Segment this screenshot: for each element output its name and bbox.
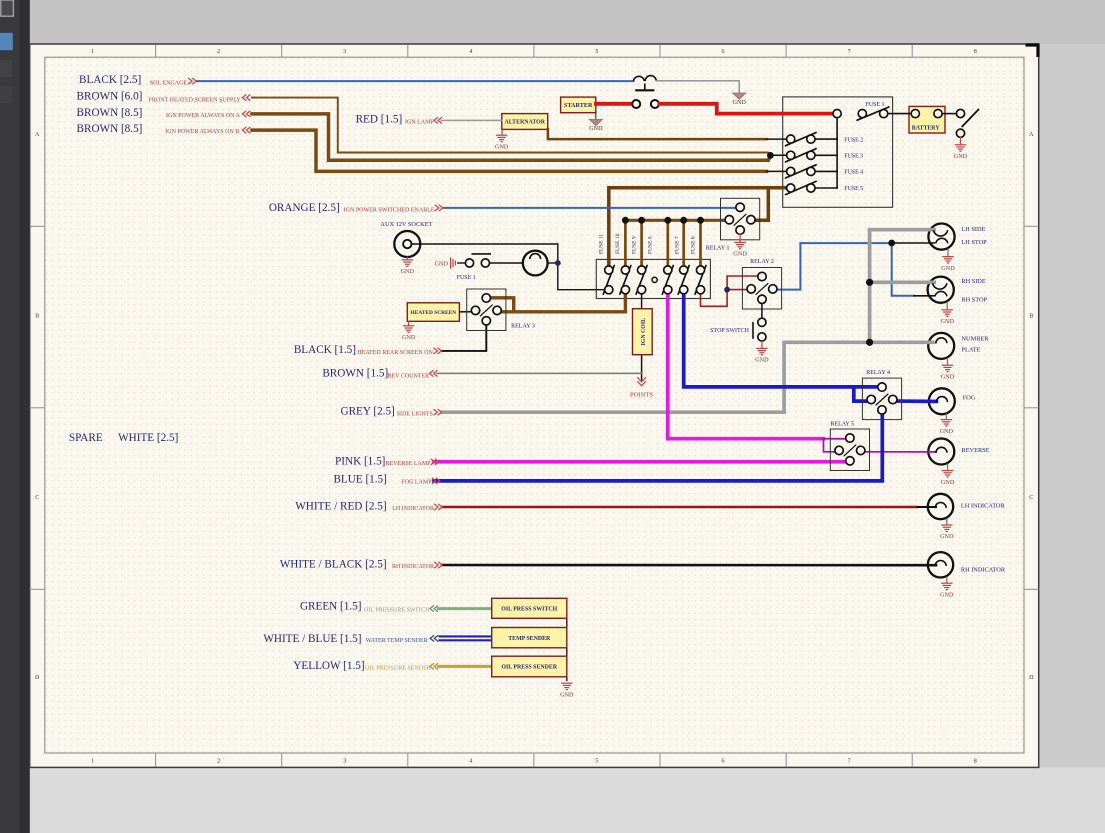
svg-text:OIL PRESSURE SWITCH: OIL PRESSURE SWITCH	[364, 608, 430, 614]
wire sensor commons to GND (dark)	[566, 609, 568, 681]
connector fuse FUSE 8	[647, 236, 673, 294]
svg-text:GND: GND	[589, 125, 603, 132]
node junction grey at RH SIDE	[866, 279, 873, 286]
svg-text:4: 4	[469, 49, 472, 55]
wire relay5 coil/common branch (dark magenta)	[824, 438, 846, 440]
wire switched bus to connector tops (brown)	[625, 219, 724, 222]
wire grey to LH SIDE	[870, 228, 934, 232]
svg-text:GREEN [1.5]: GREEN [1.5]	[300, 601, 362, 613]
svg-text:RED [1.5]: RED [1.5]	[356, 114, 403, 126]
svg-text:FUSE 4: FUSE 4	[844, 170, 863, 176]
svg-text:GND: GND	[560, 691, 574, 698]
pin stub LH INDICATOR	[918, 506, 937, 508]
wire AUX socket net (black thin)	[412, 244, 605, 290]
wire YELLOW to OIL PRESS SENDER (gold)	[439, 665, 492, 668]
svg-text:OIL PRESS SWITCH: OIL PRESS SWITCH	[501, 606, 557, 612]
node junction relay2 feed	[724, 287, 730, 293]
connector spare pin circle	[652, 277, 657, 282]
svg-text:3: 3	[343, 49, 346, 55]
svg-text:GND: GND	[940, 318, 954, 325]
svg-text:GND: GND	[402, 334, 416, 341]
svg-text:REVERSE: REVERSE	[962, 447, 990, 454]
relay RELAY 3	[467, 289, 535, 331]
svg-text:STARTER: STARTER	[564, 102, 593, 109]
svg-text:7: 7	[848, 49, 851, 55]
component STARTER	[561, 97, 596, 113]
pin stub FUSE 2	[767, 138, 787, 140]
component cigar lighter	[523, 251, 548, 276]
svg-text:5: 5	[595, 759, 598, 765]
connector fuse FUSE 11	[599, 234, 615, 295]
svg-text:BROWN [1.5]: BROWN [1.5]	[322, 367, 388, 379]
wire IGN LAMP to ALTERNATOR (grey)	[442, 119, 502, 121]
wire FUSE10 to RELAY 3 (thick brown)	[500, 294, 626, 312]
svg-text:IGN POWER ALWAYS ON A: IGN POWER ALWAYS ON A	[166, 113, 241, 119]
fuse FUSE 1 (main)	[833, 110, 841, 118]
ground GND (alternator)	[501, 129, 503, 134]
svg-text:RH INDICATOR: RH INDICATOR	[392, 564, 434, 570]
lamp filaments LH	[933, 230, 947, 236]
svg-text:FUSE 6: FUSE 6	[690, 236, 696, 254]
connector fuse FUSE 7	[674, 236, 689, 294]
ground GND (fog lamp)	[945, 413, 947, 419]
switch STOP SWITCH	[761, 304, 763, 318]
wire HEATED REAR SCREEN ON (black)	[442, 326, 486, 351]
svg-text:WHITE / BLUE [1.5]: WHITE / BLUE [1.5]	[263, 633, 361, 645]
wire FUSE6 to RELAY 2 (dark red)	[701, 276, 758, 306]
svg-text:POINTS: POINTS	[630, 392, 653, 399]
svg-text:BATTERY: BATTERY	[912, 125, 941, 131]
svg-text:REVERSE LAMP: REVERSE LAMP	[386, 461, 432, 467]
svg-text:GREY [2.5]: GREY [2.5]	[341, 406, 395, 418]
pin stub LH STOP	[892, 242, 935, 244]
wire GREEN to OIL PRESS SWITCH (green)	[439, 607, 492, 610]
svg-text:B: B	[1029, 313, 1033, 319]
svg-text:GND: GND	[732, 99, 746, 106]
component ALTERNATOR	[502, 114, 548, 130]
svg-text:FUSE 2: FUSE 2	[844, 137, 863, 143]
schematic sheet	[30, 44, 1039, 767]
relay RELAY 2	[742, 259, 781, 309]
svg-text:GND: GND	[941, 265, 955, 272]
ground GND (solenoid, triangle)	[733, 93, 746, 99]
lamp RH SIDE/STOP	[928, 277, 954, 303]
wire lighter to junction (black thin)	[548, 262, 558, 264]
ground GND (stop switch)	[761, 341, 763, 348]
wire solenoid contact to fuse box (red)	[659, 104, 833, 114]
svg-text:FUSE 9: FUSE 9	[631, 236, 637, 254]
lamp REVERSE	[928, 439, 954, 465]
fuse FUSE 2	[815, 138, 837, 140]
svg-text:FUSE 1: FUSE 1	[866, 102, 885, 108]
svg-text:RH INDICATOR: RH INDICATOR	[961, 566, 1006, 573]
svg-text:8: 8	[974, 759, 977, 765]
svg-text:TEMP SENDER: TEMP SENDER	[508, 636, 551, 642]
fuse FUSE 1 (aux, bar style)	[472, 253, 490, 255]
lamp filament FOG	[936, 397, 947, 403]
svg-text:RELAY 4: RELAY 4	[866, 370, 890, 376]
ground GND (starter, triangle)	[595, 113, 597, 119]
svg-text:IGN COIL: IGN COIL	[641, 318, 647, 346]
relay RELAY 5	[830, 422, 869, 471]
wire STARTER to solenoid contact (red)	[596, 102, 632, 106]
svg-text:WHITE / RED [2.5]: WHITE / RED [2.5]	[295, 500, 386, 512]
wire RELAY 5 to REVERSE lamp (dark magenta)	[865, 451, 936, 453]
fuse box FUSE1-FUSE5	[783, 97, 893, 207]
svg-text:RELAY 1: RELAY 1	[706, 246, 730, 252]
svg-text:GND: GND	[954, 153, 968, 160]
svg-text:IGN LAMP: IGN LAMP	[405, 120, 434, 126]
svg-text:GND: GND	[940, 428, 954, 435]
ground GND (number plate lamp)	[947, 358, 949, 365]
wire RELAY 2 to stop lamps (blue)	[777, 243, 888, 290]
lamp filament REVERSE	[936, 447, 947, 453]
svg-text:FOG LAMP: FOG LAMP	[401, 480, 432, 486]
wire fuse bus vertical (black)	[836, 118, 838, 188]
svg-text:A: A	[35, 132, 40, 138]
wire SOL ENGAGE (blue)	[197, 80, 634, 82]
component OIL PRESS SENDER	[492, 656, 567, 677]
wire stop lamp branch down (blue)	[892, 243, 914, 296]
svg-text:FUSE 8: FUSE 8	[647, 236, 653, 254]
component IGN COIL	[633, 309, 653, 355]
ground GND (battery switch)	[960, 137, 962, 144]
wire SIDE LIGHTS grey trunk	[442, 342, 933, 412]
wire REV COUNTER (grey)	[437, 372, 642, 374]
wire ignition switched thick brown trunk to FUSE 5 / FUSE 11 / RELAY 1	[609, 188, 787, 266]
node bus junction at x=625.4	[622, 217, 629, 224]
fuse FUSE 4	[815, 170, 837, 172]
node junction aux net	[555, 260, 561, 266]
wire FOG LAMP label to relay4 coil (thick blue)	[434, 414, 882, 481]
switch battery master	[956, 109, 964, 117]
svg-text:D: D	[35, 675, 40, 681]
relay RELAY 4	[862, 370, 901, 420]
wire FUSE8 to RELAY 4 (thick blue)	[684, 294, 879, 387]
svg-text:GND: GND	[940, 533, 954, 540]
wire IGN POWER SWITCHED ENABLE (blue)	[443, 207, 736, 209]
svg-text:BLUE [1.5]: BLUE [1.5]	[333, 474, 386, 486]
svg-text:ORANGE [2.5]: ORANGE [2.5]	[269, 202, 340, 214]
ground GND (senders)	[561, 683, 572, 689]
fuse FUSE 3	[815, 154, 837, 156]
ground GND (aux socket)	[406, 257, 408, 259]
svg-text:YELLOW [1.5]: YELLOW [1.5]	[293, 660, 364, 672]
component OIL PRESS SWITCH	[492, 598, 567, 618]
connector block FUSE6-FUSE11	[596, 259, 710, 298]
pin stub RH STOP	[914, 295, 934, 297]
node bus junction at x=641.6	[638, 217, 645, 224]
wire small FUSE 1 to lighter (black thin)	[490, 262, 523, 264]
starter solenoid coil K1	[633, 76, 656, 91]
sheet border ticks and zone labels	[30, 45, 1039, 768]
connector fuse FUSE 6	[690, 236, 706, 294]
svg-text:C: C	[35, 495, 39, 501]
svg-text:7: 7	[848, 759, 851, 765]
svg-text:6: 6	[722, 49, 725, 55]
lamp LH INDICATOR	[928, 494, 953, 519]
svg-text:REV COUNTER: REV COUNTER	[387, 373, 429, 379]
ground GND (RH lamp)	[946, 302, 948, 310]
wire FRONT HEATED SCREEN SUPPLY BROWN 6.0 (brown)	[252, 98, 771, 156]
lamp filament RH INDICATOR	[935, 560, 946, 566]
component AUX 12V SOCKET	[394, 231, 420, 257]
node bus junction at x=700.5	[697, 217, 704, 224]
label NUMBER PLATE	[962, 336, 990, 354]
ground GND (relay 1)	[739, 234, 741, 242]
svg-text:OIL PRESSURE SENDER: OIL PRESSURE SENDER	[365, 666, 431, 672]
svg-text:GND: GND	[733, 251, 747, 258]
wire WHITE/BLACK to RH INDICATOR (black)	[442, 564, 936, 567]
svg-text:4: 4	[469, 759, 472, 765]
svg-text:RELAY 5: RELAY 5	[830, 422, 854, 428]
lamp filament LH INDICATOR	[935, 502, 946, 508]
connector fuse FUSE 10	[615, 233, 631, 294]
svg-text:LH INDICATOR: LH INDICATOR	[392, 506, 434, 512]
pin stub FUSE 4	[767, 170, 787, 172]
svg-text:FRONT HEATED SCREEN SUPPLY: FRONT HEATED SCREEN SUPPLY	[149, 97, 242, 103]
hierarchical label POINTS (down arrow)	[637, 377, 646, 386]
svg-text:LH STOP: LH STOP	[961, 239, 987, 246]
node junction FUSE 3 feed	[767, 152, 774, 159]
lamp filaments RH	[933, 283, 947, 289]
fuse FUSE 5	[815, 187, 837, 189]
wire bus drop at x=641.6	[640, 220, 643, 266]
svg-text:8: 8	[974, 49, 977, 55]
svg-text:GND: GND	[435, 260, 449, 267]
svg-text:BLACK [1.5]: BLACK [1.5]	[294, 344, 356, 356]
svg-text:HEATED SCREEN: HEATED SCREEN	[411, 310, 457, 316]
ground GND (heated screen)	[408, 321, 410, 325]
wire FUSE7 to RELAY 5 (magenta)	[668, 294, 824, 439]
svg-text:FUSE 10: FUSE 10	[615, 233, 621, 254]
wire solenoid to GND (grey)	[656, 81, 739, 93]
svg-text:LH SIDE: LH SIDE	[961, 226, 985, 233]
pin stub FUSE 3	[771, 154, 787, 156]
wire REVERSE LAMP label to relay5 coil (magenta)	[434, 460, 846, 464]
svg-text:BROWN [8.5]: BROWN [8.5]	[77, 107, 143, 119]
ground GND (LH lamp)	[947, 249, 949, 257]
wire WHITE/RED to LH INDICATOR (dark red)	[442, 506, 918, 509]
component BATTERY	[909, 106, 945, 133]
svg-text:FUSE 1: FUSE 1	[457, 275, 476, 281]
svg-text:SPARE: SPARE	[69, 432, 103, 444]
sheet inner frame	[45, 57, 1024, 753]
ground GND (RH indicator)	[946, 577, 948, 583]
connector fuse FUSE 9	[631, 236, 647, 294]
svg-text:D: D	[1029, 675, 1034, 681]
svg-text:GND: GND	[941, 373, 955, 380]
svg-text:BROWN [6.0]: BROWN [6.0]	[77, 91, 143, 103]
wire FUSE9 to IGN COIL (black)	[641, 294, 643, 309]
svg-text:NUMBER: NUMBER	[962, 336, 990, 343]
svg-text:STOP SWITCH: STOP SWITCH	[710, 328, 750, 334]
wire bus drop at x=625.4	[624, 220, 627, 266]
svg-text:GND: GND	[940, 591, 954, 598]
ground GND (LH indicator)	[946, 518, 948, 524]
svg-text:PLATE: PLATE	[962, 346, 981, 353]
svg-text:A: A	[1029, 132, 1034, 138]
lamp LH SIDE/STOP	[928, 224, 954, 250]
svg-text:5: 5	[595, 49, 598, 55]
wire grey trunk riser	[868, 230, 872, 343]
wire bus drop at x=700.5	[699, 220, 702, 266]
lamp filament NUMBER PLATE	[936, 338, 947, 344]
lamp RH INDICATOR	[928, 552, 953, 577]
wire IGN COIL to POINTS (black)	[641, 355, 643, 381]
node bus junction at x=683.7	[680, 217, 687, 224]
svg-text:SIDE LIGHTS: SIDE LIGHTS	[397, 411, 433, 417]
svg-text:6: 6	[722, 759, 725, 765]
wire bus drop at x=667.8	[666, 220, 669, 266]
svg-text:RH STOP: RH STOP	[961, 297, 987, 304]
svg-text:GND: GND	[941, 479, 955, 486]
svg-text:FUSE 11: FUSE 11	[599, 234, 605, 254]
lamp NUMBER PLATE	[928, 333, 954, 359]
svg-text:GND: GND	[755, 357, 769, 364]
svg-text:FUSE 3: FUSE 3	[844, 154, 863, 160]
svg-text:ALTERNATOR: ALTERNATOR	[505, 120, 546, 126]
component HEATED SCREEN	[407, 303, 459, 322]
svg-text:1: 1	[91, 759, 94, 765]
node bus junction at x=667.8	[664, 217, 671, 224]
ground GND (reverse lamp)	[947, 464, 949, 471]
relay RELAY 1	[706, 198, 760, 251]
node junction grey at NUMBER PLATE	[866, 339, 873, 346]
svg-text:B: B	[35, 313, 39, 319]
lamp FOG	[929, 388, 955, 414]
svg-text:RELAY 2: RELAY 2	[750, 259, 774, 265]
svg-text:FOG: FOG	[963, 395, 976, 402]
svg-text:2: 2	[217, 49, 220, 55]
wire grey to RH SIDE	[870, 280, 935, 284]
svg-text:C: C	[1029, 495, 1033, 501]
svg-text:BLACK [2.5]: BLACK [2.5]	[79, 74, 141, 86]
svg-text:RH SIDE: RH SIDE	[961, 278, 985, 285]
wire IGN POWER ALWAYS ON A BROWN 8.5 (thick brown)	[252, 114, 771, 160]
component TEMP SENDER	[492, 628, 567, 648]
svg-text:HEATED REAR SCREEN ON: HEATED REAR SCREEN ON	[357, 350, 433, 356]
sheet corner mark	[1026, 45, 1039, 57]
wire IGN POWER ALWAYS ON B BROWN 8.5 (thick brown)	[252, 130, 767, 171]
svg-text:RELAY 3: RELAY 3	[511, 324, 535, 330]
svg-text:FUSE 7: FUSE 7	[674, 236, 680, 254]
svg-text:BROWN [8.5]: BROWN [8.5]	[77, 123, 143, 135]
svg-text:OIL PRESS SENDER: OIL PRESS SENDER	[501, 665, 557, 671]
svg-text:GND: GND	[401, 268, 415, 275]
svg-text:3: 3	[343, 759, 346, 765]
svg-text:2: 2	[217, 759, 220, 765]
svg-text:PINK [1.5]: PINK [1.5]	[335, 455, 385, 467]
wire small GND to FUSE 1 (black thin)	[459, 262, 466, 264]
solenoid contact circles	[632, 100, 640, 108]
svg-text:GND: GND	[495, 143, 509, 150]
svg-text:IGN POWER ALWAYS ON B: IGN POWER ALWAYS ON B	[165, 129, 239, 135]
svg-text:FUSE 5: FUSE 5	[844, 186, 863, 192]
svg-text:1: 1	[91, 49, 94, 55]
svg-text:SOL ENGAGE: SOL ENGAGE	[150, 80, 188, 86]
node junction stop lamp	[888, 240, 895, 247]
wire ALTERNATOR to FUSE 2 (brown)	[548, 129, 767, 139]
svg-text:LH INDICATOR: LH INDICATOR	[961, 503, 1006, 510]
svg-text:WHITE / BLACK [2.5]: WHITE / BLACK [2.5]	[280, 559, 387, 571]
svg-text:AUX 12V SOCKET: AUX 12V SOCKET	[380, 221, 432, 228]
wire HEATED SCREEN to RELAY 3 (black)	[459, 311, 471, 313]
wire RELAY 4 to FOG lamp (thick blue)	[896, 399, 937, 403]
wire WHITE/BLUE to TEMP SENDER (blue pair)	[440, 635, 492, 637]
wire bus drop at x=683.7	[682, 220, 685, 266]
svg-text:WATER TEMP SENDER: WATER TEMP SENDER	[366, 638, 428, 644]
svg-text:WHITE [2.5]: WHITE [2.5]	[118, 432, 178, 444]
svg-text:IGN POWER SWITCHED ENABLE: IGN POWER SWITCHED ENABLE	[344, 207, 435, 213]
